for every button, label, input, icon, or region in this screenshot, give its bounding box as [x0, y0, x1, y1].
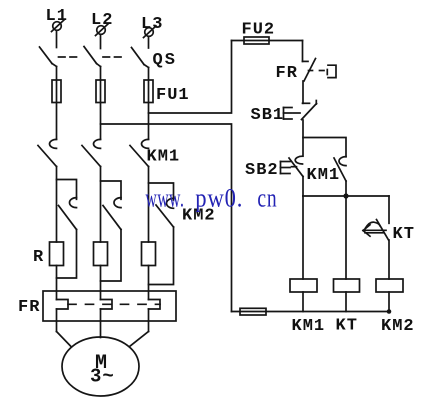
- relay FR heater element 3: [149, 300, 161, 310]
- fuse FU2 top: [244, 37, 269, 44]
- wire phase1 R to FR box: [56, 266, 58, 300]
- svg-text:QS: QS: [153, 51, 177, 70]
- svg-text:KM2: KM2: [381, 317, 415, 336]
- svg-text:KM1: KM1: [147, 148, 181, 167]
- switch QS pole 3 blade: [132, 48, 149, 68]
- svg-text:KM1: KM1: [292, 317, 326, 336]
- resistor R phase 2: [94, 242, 108, 266]
- wire SB2 to node A: [302, 177, 304, 197]
- svg-text:FR: FR: [276, 64, 298, 83]
- switch QS linkage dashes: [59, 56, 122, 58]
- contactor KM1 main contact 2: [82, 139, 101, 166]
- motor M circle: [62, 337, 139, 396]
- relay FR heater element 2: [101, 300, 113, 310]
- wire bypass branch 2: [101, 181, 122, 199]
- wire bypass 3 to rejoin: [149, 227, 174, 285]
- svg-text:KM1: KM1: [307, 166, 341, 185]
- fuse FU2 bottom: [240, 308, 266, 315]
- wire KM1 aux to node A: [345, 181, 347, 196]
- wire phase3 KM1 to R: [148, 167, 150, 243]
- svg-text:SB2: SB2: [245, 161, 279, 180]
- wire bypass branch 1: [57, 180, 77, 200]
- svg-text:SB1: SB1: [251, 106, 285, 125]
- wire bypass 1 to rejoin: [57, 230, 77, 279]
- wire control top with FU2: [232, 40, 303, 42]
- wire holding branch top: [303, 138, 346, 157]
- contactor KM1 main contact 3: [130, 139, 149, 166]
- svg-text:L1: L1: [46, 7, 68, 26]
- node A junction dot: [343, 193, 348, 198]
- wire phase1 KM1 to R: [56, 167, 58, 243]
- wire control branch drop: [302, 41, 304, 62]
- wire KM1 coil branch: [302, 196, 304, 279]
- svg-text:FR: FR: [18, 298, 40, 317]
- wire phase3 FR to motor: [130, 309, 149, 347]
- svg-text:3~: 3~: [90, 366, 115, 388]
- button SB1 NC stop: [284, 101, 317, 120]
- wire control tap upper from L3: [149, 41, 232, 114]
- wire L1 drop to QS: [56, 31, 58, 48]
- wire L1 QS to fuse: [56, 67, 58, 140]
- wire phase2 KM1 to R: [100, 167, 102, 243]
- wire bypass 2 to rejoin: [101, 230, 122, 282]
- wire L3 QS to fuse: [148, 68, 150, 140]
- wire KM2 coil to bottom: [388, 292, 390, 312]
- wire node A horizontal: [303, 195, 389, 197]
- wire KT coil branch: [345, 196, 347, 279]
- node L3 terminal circle: [144, 26, 157, 38]
- wire KM2 branch upper: [388, 196, 390, 223]
- node bottom right junction dot: [387, 309, 392, 314]
- contact FR NC in control: [303, 59, 337, 82]
- relay FR box: [43, 291, 176, 321]
- resistor R phase 3: [142, 242, 156, 266]
- wire KT contact to KM2 coil: [388, 240, 390, 279]
- wire control tap lower from L2: [101, 124, 232, 312]
- wire L2 QS to fuse: [100, 67, 102, 140]
- contactor KM2 bypass contact 1: [59, 198, 77, 230]
- node L2 terminal circle: [96, 24, 109, 36]
- coil KM2: [376, 279, 403, 292]
- svg-text:www.pw0.cn: www.pw0.cn: [146, 184, 278, 213]
- contact KM1 auxiliary: [334, 157, 346, 181]
- fuse FU1 pole 1: [52, 80, 61, 103]
- svg-text:FU1: FU1: [156, 86, 190, 105]
- wire control bottom return: [232, 311, 390, 313]
- svg-text:FU2: FU2: [242, 21, 276, 40]
- wire SB1 to branch: [302, 120, 304, 156]
- switch QS pole 2 blade: [84, 47, 101, 67]
- coil KT: [334, 279, 360, 292]
- wire phase3 R to FR box: [148, 266, 150, 300]
- wire KM1 coil to bottom: [302, 292, 304, 312]
- resistor R phase 1: [50, 242, 64, 266]
- fuse FU1 pole 3: [144, 80, 153, 103]
- svg-text:L3: L3: [141, 15, 163, 34]
- switch QS pole 1 blade: [40, 47, 57, 67]
- wire KT coil to bottom: [345, 292, 347, 312]
- node L1 terminal circle: [52, 20, 65, 32]
- wire L2 drop to QS: [100, 35, 102, 49]
- svg-text:L2: L2: [91, 11, 113, 30]
- button SB2 NO start: [281, 156, 304, 176]
- svg-text:R: R: [33, 248, 44, 267]
- relay FR linkage dashes: [68, 303, 160, 305]
- contact KT delayed close: [363, 220, 389, 241]
- svg-text:KT: KT: [393, 225, 415, 244]
- coil KM1: [290, 279, 317, 292]
- contactor KM2 bypass contact 3: [156, 198, 174, 227]
- wire bypass branch 3: [149, 183, 174, 200]
- wire phase2 R to FR box: [100, 266, 102, 300]
- contactor KM2 bypass contact 2: [103, 198, 121, 230]
- wire phase1 FR to motor: [57, 309, 72, 347]
- fuse FU1 pole 2: [96, 80, 105, 103]
- wire L3 drop to QS: [148, 37, 150, 49]
- relay FR heater element 1: [57, 300, 69, 310]
- svg-text:KT: KT: [336, 317, 358, 336]
- wire FR to SB1: [302, 81, 304, 103]
- contactor KM1 main contact 1: [38, 139, 57, 166]
- wire phase2 FR to motor: [100, 309, 102, 338]
